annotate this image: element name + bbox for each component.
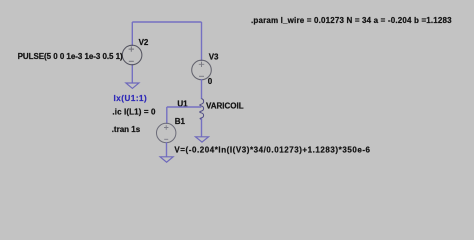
wire corner to V3 top xyxy=(201,22,203,61)
wire top horizontal xyxy=(132,21,201,23)
wire V3 bottom to coil xyxy=(201,79,203,99)
svg-text:Ix(U1:1): Ix(U1:1) xyxy=(114,94,148,103)
ground below B1 xyxy=(160,157,173,162)
wire B1 to coil horizontal xyxy=(167,106,202,108)
wire V2 bottom to ground xyxy=(131,64,133,83)
wire V2 top to corner xyxy=(131,22,133,46)
ground below U1 xyxy=(196,137,209,142)
inductor U1 coil xyxy=(200,99,204,120)
svg-text:.ic I(L1) = 0: .ic I(L1) = 0 xyxy=(112,108,156,117)
voltage source V2 xyxy=(122,45,142,65)
svg-text:V2: V2 xyxy=(139,38,149,47)
svg-text:B1: B1 xyxy=(175,117,186,126)
wire B1 bottom to ground xyxy=(166,142,168,157)
svg-text:PULSE(5 0 0 1e-3 1e-3 0.5 1): PULSE(5 0 0 1e-3 1e-3 0.5 1) xyxy=(18,52,123,61)
wire coil bottom to ground xyxy=(201,119,203,137)
svg-text:.param l_wire = 0.01273 N = 34: .param l_wire = 0.01273 N = 34 a = -0.20… xyxy=(251,16,452,25)
svg-text:VARICOIL: VARICOIL xyxy=(206,102,244,111)
behavioral source B1 xyxy=(157,123,176,142)
ground below V2 xyxy=(126,83,139,88)
voltage source V3 xyxy=(192,60,212,80)
svg-text:V3: V3 xyxy=(209,53,219,62)
wire corner down to B1 top xyxy=(166,107,168,124)
svg-text:V=(-0.204*ln(I(V3)*34/0.01273): V=(-0.204*ln(I(V3)*34/0.01273)+1.1283)*3… xyxy=(174,145,370,154)
svg-text:0: 0 xyxy=(208,77,213,86)
svg-text:.tran 1s: .tran 1s xyxy=(112,125,141,134)
